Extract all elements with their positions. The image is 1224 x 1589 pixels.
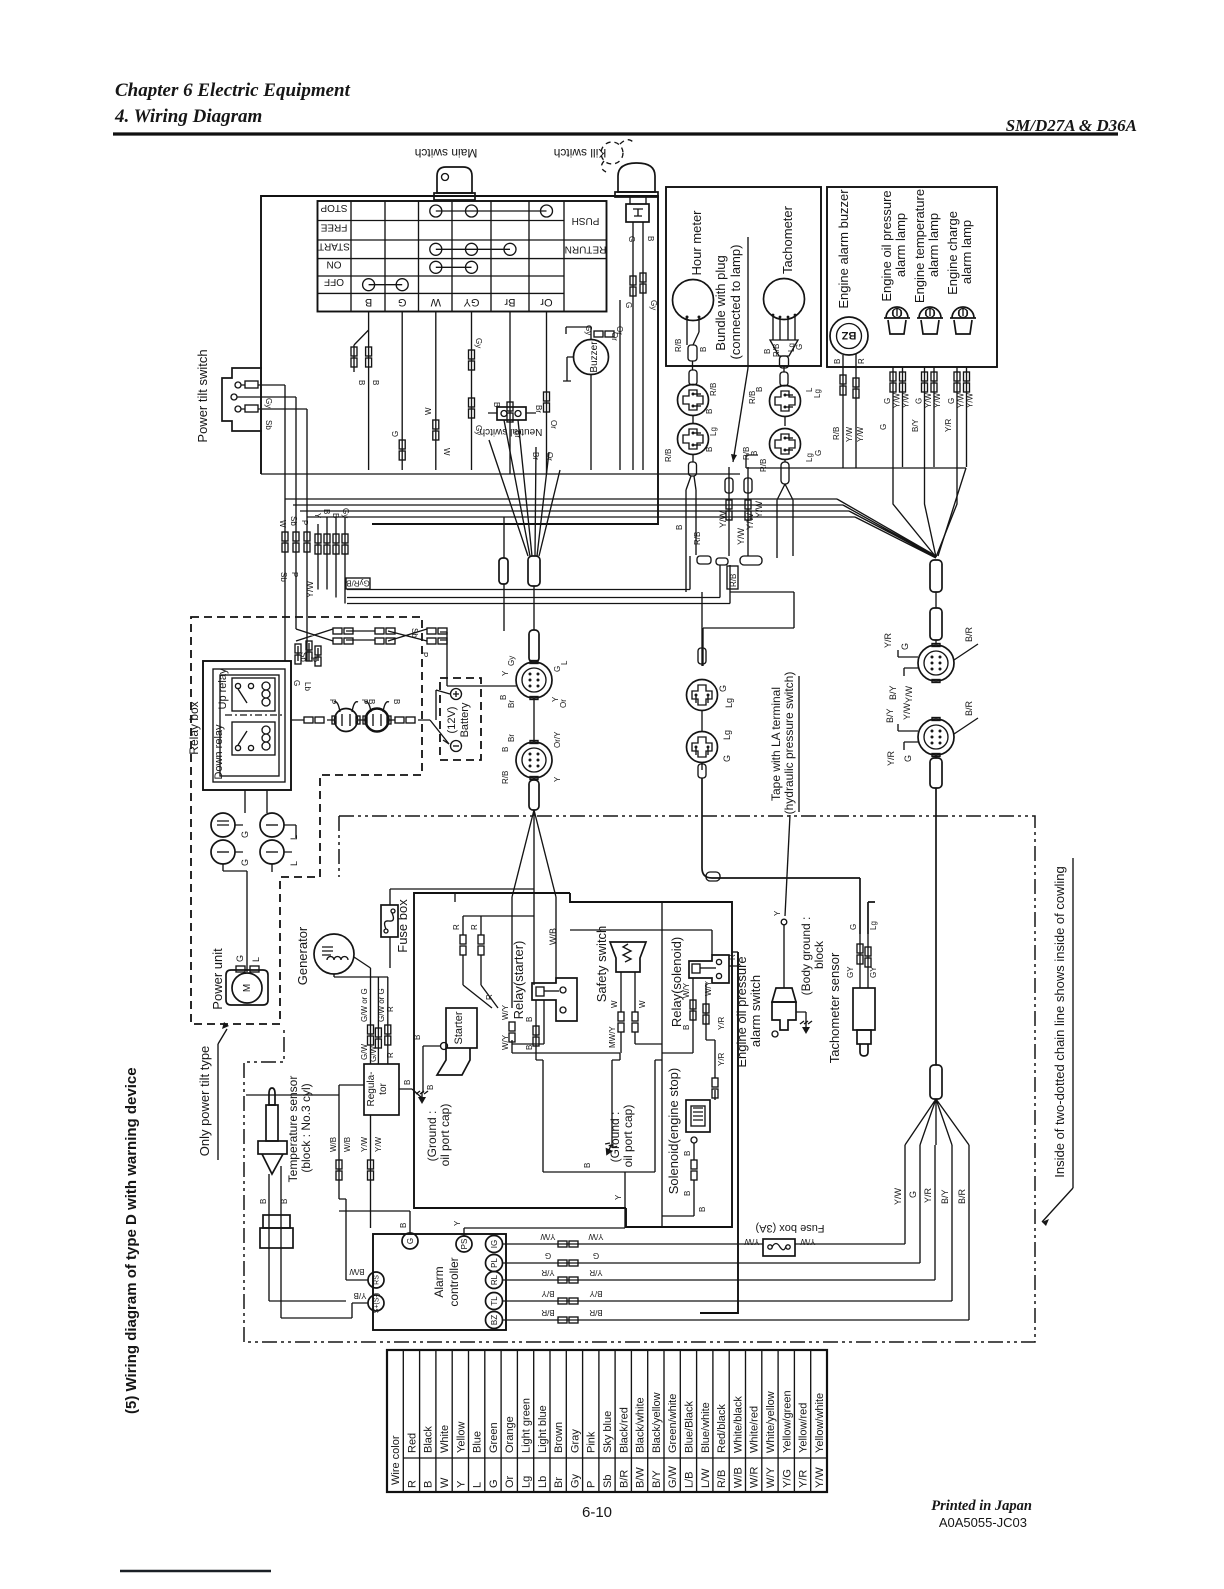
svg-text:MW/Y: MW/Y: [608, 1026, 617, 1048]
svg-text:G: G: [553, 666, 562, 672]
svg-text:Gy: Gy: [474, 425, 483, 435]
tachometer lower leads: [784, 459, 786, 462]
svg-text:B: B: [357, 380, 366, 385]
buzzer: [563, 327, 609, 470]
svg-text:B: B: [331, 513, 340, 518]
svg-text:B: B: [682, 1025, 691, 1030]
svg-text:Y/W: Y/W: [374, 1136, 383, 1152]
svg-text:(hydraulic pressure switch): (hydraulic pressure switch): [782, 672, 796, 815]
svg-text:R/B: R/B: [772, 344, 781, 357]
svg-text:Fuse box (3A): Fuse box (3A): [755, 1222, 824, 1234]
svg-text:Power tilt switch: Power tilt switch: [195, 349, 210, 442]
svg-text:W: W: [439, 1477, 451, 1488]
svg-text:B: B: [399, 1223, 408, 1228]
svg-text:B: B: [683, 1151, 692, 1156]
svg-text:Y/W: Y/W: [933, 392, 942, 408]
terminal PS: [456, 1236, 472, 1252]
svg-text:R/B: R/B: [693, 532, 702, 545]
svg-text:B/W: B/W: [635, 1467, 647, 1488]
neutral/kill wire fan into harness sleeve: [489, 420, 560, 556]
engine sensor box: [700, 952, 738, 1313]
svg-text:R: R: [386, 1052, 395, 1058]
center connector upper: [516, 661, 552, 700]
svg-text:B/R: B/R: [964, 626, 974, 642]
svg-text:B/Y: B/Y: [888, 685, 898, 700]
svg-text:Relay box: Relay box: [187, 701, 201, 754]
svg-text:(Body ground :: (Body ground :: [799, 917, 813, 996]
svg-text:G: G: [722, 755, 732, 762]
svg-text:A0A5055-JC03: A0A5055-JC03: [939, 1515, 1027, 1530]
header chapter title: [114, 80, 351, 127]
svg-text:Engine oil pressure: Engine oil pressure: [879, 190, 894, 301]
svg-text:R/B: R/B: [664, 449, 673, 462]
svg-text:OFF: OFF: [324, 276, 344, 287]
svg-text:W/Y: W/Y: [501, 1004, 510, 1020]
svg-text:Br: Br: [534, 405, 543, 413]
svg-text:Relay(solenoid): Relay(solenoid): [669, 937, 684, 1027]
svg-text:Green: Green: [488, 1422, 500, 1453]
svg-text:(12V): (12V): [446, 707, 458, 734]
svg-text:W: W: [430, 296, 441, 308]
svg-text:4. Wiring Diagram: 4. Wiring Diagram: [114, 106, 262, 127]
svg-text:Power unit: Power unit: [210, 948, 225, 1010]
svg-text:Y/G: Y/G: [781, 1469, 793, 1488]
svg-text:Main switch: Main switch: [415, 146, 478, 160]
svg-text:B: B: [259, 1199, 268, 1204]
svg-text:Gy: Gy: [474, 338, 483, 348]
svg-text:R: R: [485, 994, 494, 1000]
svg-text:Light blue: Light blue: [537, 1405, 549, 1453]
svg-text:B: B: [367, 699, 376, 704]
svg-text:Y/W: Y/W: [924, 392, 933, 408]
svg-text:Y/W: Y/W: [893, 1187, 903, 1205]
temperature sensor: [258, 1088, 352, 1318]
svg-text:Gy: Gy: [507, 656, 516, 666]
svg-text:(5) Wiring diagram of type D w: (5) Wiring diagram of type D with warnin…: [123, 1067, 140, 1414]
svg-text:G: G: [883, 398, 892, 404]
svg-text:W/B: W/B: [343, 1137, 352, 1152]
svg-text:Y/W: Y/W: [814, 1467, 826, 1488]
cowling boundary two-dot chain line: [244, 816, 1035, 1342]
chain stub at top left: [338, 816, 340, 877]
svg-text:Or: Or: [549, 420, 558, 429]
boxed Gy R/B label: [346, 578, 370, 589]
svg-text:B: B: [699, 347, 708, 352]
svg-text:L: L: [251, 957, 261, 962]
svg-text:Y/R: Y/R: [886, 750, 896, 766]
tachometer: [764, 279, 805, 369]
svg-text:Lb: Lb: [537, 1476, 549, 1488]
svg-text:Red: Red: [406, 1433, 418, 1453]
svg-text:alarm switch: alarm switch: [748, 975, 763, 1047]
svg-text:G: G: [814, 450, 823, 456]
svg-text:Y: Y: [553, 776, 562, 782]
svg-text:G: G: [235, 955, 245, 962]
svg-text:Y/W: Y/W: [966, 392, 975, 408]
svg-text:G/W: G/W: [360, 1044, 369, 1060]
svg-text:B/R: B/R: [957, 1188, 967, 1204]
relay(starter): [532, 978, 577, 1021]
svg-text:B: B: [763, 349, 772, 354]
svg-text:START: START: [318, 241, 350, 252]
svg-text:Lb: Lb: [303, 682, 312, 691]
svg-text:L: L: [289, 861, 299, 866]
svg-text:Y/W: Y/W: [800, 1237, 816, 1246]
svg-text:White/yellow: White/yellow: [765, 1391, 777, 1453]
svg-text:(connected to lamp): (connected to lamp): [728, 245, 743, 360]
header rule: [113, 132, 1118, 135]
svg-text:Wire color: Wire color: [390, 1435, 402, 1485]
fuse box (engine): [381, 889, 534, 968]
hour meter lower leads: [692, 454, 694, 462]
alarm lamp pair wires: [893, 367, 936, 557]
svg-text:R: R: [386, 1006, 395, 1012]
svg-text:B: B: [525, 1045, 534, 1050]
svg-text:Y/R: Y/R: [589, 1268, 603, 1277]
svg-text:Pink: Pink: [586, 1431, 598, 1453]
svg-text:G: G: [908, 1191, 918, 1198]
tachometer connector B: [770, 429, 801, 460]
engine charge alarm lamp: [950, 307, 976, 334]
svg-text:B: B: [403, 1080, 412, 1085]
regulator side wires: [246, 1085, 371, 1199]
svg-text:White: White: [439, 1425, 451, 1453]
svg-text:Bundle with plug: Bundle with plug: [713, 255, 728, 350]
svg-text:Lg: Lg: [813, 389, 822, 398]
harness connector chain (center): [533, 586, 535, 630]
hour meter connector B: [678, 424, 709, 455]
svg-text:Y/R: Y/R: [717, 1052, 726, 1066]
svg-text:SM/D27A & D36A: SM/D27A & D36A: [1006, 116, 1137, 135]
svg-text:B/R: B/R: [541, 1308, 555, 1317]
svg-text:Engine oil pressure: Engine oil pressure: [734, 956, 749, 1067]
svg-text:B/R: B/R: [964, 700, 974, 716]
inside-of-cowling note: [1042, 858, 1073, 1226]
svg-text:B/Y: B/Y: [541, 1289, 555, 1298]
svg-text:P: P: [290, 572, 299, 577]
svg-text:Or: Or: [559, 699, 568, 708]
svg-text:Yellow: Yellow: [455, 1422, 467, 1453]
svg-text:R/B: R/B: [742, 447, 751, 460]
svg-text:Black/red: Black/red: [618, 1407, 630, 1453]
safety switch: [610, 942, 662, 1053]
svg-text:Gy: Gy: [341, 508, 350, 518]
svg-text:Y: Y: [501, 670, 510, 676]
svg-text:L: L: [560, 660, 569, 665]
hour meter: [673, 280, 714, 367]
remote control box: [261, 196, 658, 524]
svg-text:B: B: [646, 236, 655, 241]
left drop group to lower bus: [318, 517, 345, 604]
svg-text:Black/yellow: Black/yellow: [651, 1392, 663, 1453]
engine cover box: [414, 893, 732, 1227]
generator wires to regulator: [371, 968, 388, 1064]
svg-text:Gy: Gy: [649, 300, 658, 310]
svg-text:B: B: [833, 359, 842, 364]
svg-text:alarm lamp: alarm lamp: [959, 220, 974, 284]
svg-text:Down relay: Down relay: [213, 724, 225, 780]
power trim motor connectors: [291, 720, 449, 744]
svg-text:Relay(starter): Relay(starter): [511, 941, 526, 1020]
svg-text:B: B: [583, 1163, 592, 1168]
svg-text:L: L: [289, 835, 299, 840]
svg-text:G: G: [900, 643, 910, 650]
svg-text:Buzzer: Buzzer: [589, 341, 600, 373]
svg-text:W/B: W/B: [329, 1137, 338, 1152]
svg-text:STOP: STOP: [320, 202, 347, 213]
svg-text:Y: Y: [614, 1194, 623, 1200]
svg-text:Y/W: Y/W: [893, 392, 902, 408]
svg-text:L: L: [472, 1482, 484, 1488]
solenoid(engine stop): [662, 1090, 715, 1216]
svg-text:BZ: BZ: [841, 329, 856, 341]
svg-text:G: G: [849, 924, 858, 930]
svg-text:B: B: [322, 509, 331, 514]
svg-text:Y/W: Y/W: [904, 685, 914, 703]
hour meter connector wires: [692, 366, 694, 370]
svg-text:GY: GY: [463, 296, 480, 308]
svg-text:Y/W: Y/W: [360, 1136, 369, 1152]
svg-text:Yellow/red: Yellow/red: [798, 1403, 810, 1453]
svg-text:Chapter 6 Electric Equipment: Chapter 6 Electric Equipment: [115, 80, 351, 101]
harness bus wires (remote to engine): [261, 455, 966, 558]
svg-text:Y: Y: [455, 1480, 467, 1488]
svg-text:Or: Or: [504, 1475, 516, 1488]
footer corner mark: [120, 1570, 271, 1572]
alarm bus wires: [502, 1145, 905, 1244]
kill switch component: [615, 163, 658, 470]
svg-text:Sb: Sb: [264, 420, 273, 430]
svg-text:Y/W: Y/W: [902, 392, 911, 408]
svg-text:PUSH: PUSH: [572, 215, 600, 226]
terminal S: [368, 1293, 384, 1313]
svg-text:G: G: [795, 344, 804, 350]
svg-text:Black: Black: [423, 1426, 435, 1453]
svg-text:W: W: [638, 1000, 647, 1008]
right terminals IG PL RL TL BZ: [486, 1236, 503, 1253]
svg-text:(Ground :: (Ground :: [425, 1111, 439, 1162]
svg-text:Y/R: Y/R: [717, 1016, 726, 1030]
svg-text:Orange: Orange: [504, 1416, 516, 1453]
svg-text:Gy: Gy: [584, 325, 593, 335]
bundle-with-plug note: [713, 237, 748, 462]
alarm controller: [373, 1234, 506, 1330]
svg-text:Gy: Gy: [569, 1473, 581, 1488]
relay(solenoid): [689, 955, 729, 983]
svg-text:oil port cap): oil port cap): [438, 1104, 452, 1167]
svg-text:tor: tor: [378, 1082, 389, 1094]
down relay: [232, 722, 275, 755]
svg-text:B: B: [492, 402, 501, 407]
svg-text:G: G: [915, 398, 924, 404]
svg-text:G: G: [240, 831, 250, 838]
relay link line: [225, 714, 285, 716]
svg-text:R/B: R/B: [759, 459, 768, 472]
svg-text:controller: controller: [447, 1257, 461, 1306]
svg-text:G/W: G/W: [369, 1046, 378, 1062]
svg-text:M: M: [242, 984, 253, 992]
engine temperature alarm lamp: [917, 307, 943, 334]
svg-text:L/B: L/B: [684, 1471, 696, 1488]
svg-text:Y: Y: [453, 1220, 462, 1226]
svg-text:G: G: [292, 680, 301, 686]
svg-text:B: B: [501, 747, 510, 752]
svg-text:White/black: White/black: [732, 1396, 744, 1453]
svg-text:Temperature sensor: Temperature sensor: [286, 1076, 300, 1183]
lower bus wires (to tachometer sensor circuit): [347, 556, 794, 666]
svg-text:Y/W: Y/W: [744, 1237, 760, 1246]
svg-text:Or/Y: Or/Y: [553, 731, 562, 748]
svg-text:alarm lamp: alarm lamp: [926, 213, 941, 277]
svg-text:Inside of two-dotted chain lin: Inside of two-dotted chain line shows in…: [1052, 866, 1067, 1177]
only power tilt type note: [197, 1022, 229, 1160]
svg-text:Br: Br: [553, 1477, 565, 1488]
svg-text:G: G: [391, 431, 400, 437]
up relay: [232, 678, 275, 711]
terminal RS: [368, 1272, 384, 1288]
power tilt switch: [222, 368, 307, 431]
svg-text:B: B: [423, 1481, 435, 1488]
sb/p sleeve: [499, 558, 508, 584]
svg-text:ON: ON: [327, 259, 342, 270]
svg-text:Sb: Sb: [279, 572, 288, 582]
svg-text:G/W or G: G/W or G: [360, 988, 369, 1022]
engine connector upper (6 pin): [918, 644, 954, 683]
svg-text:PL: PL: [490, 1258, 499, 1268]
svg-text:block: block: [812, 940, 826, 969]
svg-text:Y/R: Y/R: [798, 1470, 810, 1488]
svg-text:Y/R: Y/R: [541, 1268, 555, 1277]
svg-text:Engine charge: Engine charge: [945, 211, 960, 295]
svg-text:Tape with LA terminal: Tape with LA terminal: [769, 687, 783, 801]
svg-text:Or: Or: [615, 326, 624, 335]
svg-text:W/Y: W/Y: [765, 1467, 777, 1488]
svg-text:GY: GY: [869, 966, 878, 978]
engine feed wires from sleeve: [512, 897, 556, 1008]
svg-text:G/W or G: G/W or G: [377, 988, 386, 1022]
engine feed sleeve: [930, 560, 942, 592]
lg/g connector pair (tachometer line): [701, 592, 703, 666]
svg-text:Tachometer: Tachometer: [780, 205, 795, 274]
svg-text:W: W: [278, 520, 287, 528]
tachometer connector wires: [783, 368, 785, 372]
svg-text:Yellow/white: Yellow/white: [814, 1393, 826, 1453]
generator: [314, 934, 388, 977]
svg-text:Y/W: Y/W: [957, 392, 966, 408]
svg-text:R/B: R/B: [501, 771, 510, 784]
svg-text:Lg: Lg: [724, 698, 734, 708]
svg-text:B/R: B/R: [589, 1308, 603, 1317]
svg-text:(block : No.3 cyl): (block : No.3 cyl): [299, 1083, 313, 1172]
svg-text:Y/W: Y/W: [305, 580, 315, 598]
svg-text:Green/white: Green/white: [667, 1394, 679, 1453]
regulator B wire to ground: [399, 1089, 422, 1098]
svg-text:RL: RL: [490, 1274, 499, 1285]
trim motor connectors (2x2): [211, 790, 296, 972]
svg-text:G: G: [593, 1251, 599, 1260]
svg-text:GyR/B: GyR/B: [346, 579, 370, 588]
svg-text:Only power tilt type: Only power tilt type: [197, 1046, 212, 1157]
svg-text:B/R: B/R: [618, 1470, 630, 1488]
svg-text:B: B: [683, 1191, 692, 1196]
engine inner panel: [455, 893, 662, 1227]
svg-text:(Ground :: (Ground :: [608, 1112, 622, 1163]
svg-text:Safety switch: Safety switch: [594, 926, 609, 1003]
svg-text:B: B: [371, 380, 380, 385]
svg-text:W/B: W/B: [732, 1467, 744, 1488]
svg-text:Up relay: Up relay: [217, 668, 229, 709]
svg-text:Gray: Gray: [569, 1429, 581, 1453]
main switch contact table: [318, 201, 607, 312]
terminal G: [402, 1233, 418, 1249]
svg-text:B: B: [280, 1199, 289, 1204]
svg-text:G: G: [240, 859, 250, 866]
wire color legend table: [387, 1350, 827, 1492]
svg-text:W/Y: W/Y: [501, 1034, 510, 1050]
svg-text:Sb: Sb: [602, 1475, 614, 1488]
svg-text:R/B: R/B: [709, 383, 718, 396]
svg-text:B/W: B/W: [349, 1267, 365, 1276]
regulator: [364, 1064, 399, 1115]
svg-text:Lg: Lg: [722, 730, 732, 740]
engine alarm lamp box: [827, 187, 997, 367]
svg-text:G: G: [718, 685, 728, 692]
svg-text:Y/W: Y/W: [902, 702, 912, 720]
svg-text:Lg: Lg: [709, 427, 718, 436]
fuse box (3A): [763, 1239, 795, 1256]
harness sleeve (remote side): [528, 556, 540, 586]
svg-text:Y/R: Y/R: [923, 1187, 933, 1203]
engine connector lower (6 pin): [918, 718, 954, 757]
svg-text:Black/white: Black/white: [635, 1397, 647, 1453]
svg-text:Yellow/green: Yellow/green: [781, 1390, 793, 1453]
svg-text:P: P: [300, 520, 309, 525]
svg-text:R/B: R/B: [674, 339, 683, 352]
svg-text:Y: Y: [773, 910, 782, 916]
svg-text:B: B: [499, 695, 508, 700]
svg-text:B: B: [705, 409, 714, 414]
svg-text:B/Y: B/Y: [885, 708, 895, 723]
svg-text:Y/B: Y/B: [354, 1291, 367, 1300]
svg-text:Y/R: Y/R: [944, 418, 953, 432]
center connector lower: [516, 741, 552, 780]
main switch column drop wires: [354, 312, 547, 475]
svg-text:TL: TL: [490, 1296, 499, 1306]
orange wire to kill area: [619, 300, 621, 470]
svg-text:Y/R: Y/R: [883, 632, 893, 648]
svg-text:W: W: [442, 448, 451, 456]
svg-text:B: B: [698, 1207, 707, 1212]
svg-text:B: B: [675, 525, 684, 530]
svg-text:R: R: [470, 924, 479, 930]
starter: [423, 1008, 477, 1093]
svg-text:Or: Or: [540, 296, 553, 308]
svg-text:Lg: Lg: [805, 453, 814, 462]
svg-text:G: G: [947, 398, 956, 404]
tilt switch wire drops: [285, 385, 307, 661]
engine harness fan (lower): [930, 1065, 942, 1099]
svg-text:G: G: [624, 302, 633, 308]
svg-text:Blue: Blue: [472, 1431, 484, 1453]
engine alarm buzzer BZ: [830, 317, 868, 468]
svg-text:White/red: White/red: [749, 1406, 761, 1453]
tachometer connector A: [770, 386, 801, 417]
kill switch lanyard coil: [601, 140, 634, 172]
engine oil pressure alarm switch: [772, 919, 812, 1037]
svg-text:Sky blue: Sky blue: [602, 1411, 614, 1453]
svg-text:R: R: [452, 924, 461, 930]
engine oil pressure alarm lamp: [884, 307, 910, 334]
